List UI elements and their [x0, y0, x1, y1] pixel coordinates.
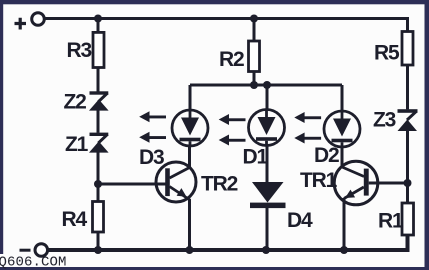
svg-text:R4: R4: [62, 208, 88, 231]
node junction right (Z3/R1/TR1 base): [404, 179, 412, 187]
svg-text:R5: R5: [374, 42, 400, 65]
resistor R3: [93, 32, 104, 67]
svg-text:Z3: Z3: [373, 109, 396, 132]
wire Z1 to R4 (through node): [97, 153, 100, 202]
wire LED rail to D2: [341, 85, 344, 111]
junction top rail / R2: [250, 15, 258, 23]
zener Z3: [398, 109, 418, 131]
junction bottom rail / D4: [262, 246, 270, 254]
wire Z2 to Z1: [97, 110, 100, 132]
wire R5 to Z3: [406, 65, 409, 109]
junction D1/LED rail: [263, 81, 271, 89]
svg-text:R3: R3: [67, 39, 92, 62]
wire TR2 base: [98, 183, 167, 186]
wire R4 to bottom rail: [97, 232, 100, 250]
terminal + circle: [32, 13, 45, 26]
resistor R4: [93, 202, 104, 233]
arrow D3 upper: [139, 111, 166, 122]
arrow D2 upper: [294, 112, 321, 123]
resistor R5: [402, 32, 413, 66]
svg-text:D4: D4: [287, 209, 313, 232]
wire D1 to D4: [266, 146, 269, 183]
border frame right: [425, 0, 429, 270]
svg-text:D1: D1: [243, 146, 269, 169]
arrow D1 upper: [219, 114, 246, 125]
svg-text:Q606.COM: Q606.COM: [0, 254, 67, 270]
transistor TR2: [156, 162, 196, 202]
zener Z2: [89, 91, 109, 110]
border frame left: [0, 0, 3, 270]
terminal - circle: [35, 244, 48, 257]
wire top + rail: [44, 19, 408, 32]
zener Z1: [89, 133, 109, 153]
wire TR2 emitter to bottom rail: [188, 199, 191, 250]
wire R3 to Z2: [97, 68, 100, 92]
border frame top: [0, 0, 429, 4]
junction bottom rail / R4: [94, 246, 102, 254]
wire bottom - rail: [48, 235, 408, 250]
junction top rail / R3: [94, 15, 102, 23]
svg-text:TR1: TR1: [300, 169, 338, 192]
junction bottom rail / TR2 emitter: [186, 246, 194, 254]
wire R2 top stub: [253, 19, 256, 42]
arrow D3 lower: [139, 132, 166, 143]
wire LED rail: [190, 84, 342, 87]
wire TR1 base to right rail: [369, 182, 408, 185]
wire LED rail to D1: [266, 85, 269, 110]
arrow D1 lower: [219, 135, 246, 146]
diode D4: [250, 182, 286, 208]
wire D2 to TR1 collector: [341, 147, 344, 167]
transistor TR1: [334, 161, 378, 205]
svg-text:Z1: Z1: [65, 133, 89, 156]
border frame bottom: [0, 267, 429, 270]
wire R2 bottom to LED rail: [253, 72, 256, 86]
svg-text:R2: R2: [219, 48, 244, 71]
minus sign: [20, 249, 31, 252]
svg-text:D2: D2: [314, 144, 339, 167]
resistor R1: [402, 203, 414, 235]
node junction left (Z1/R4/TR2 base): [94, 180, 102, 188]
svg-text:TR2: TR2: [201, 173, 238, 196]
LED D2: [324, 111, 360, 147]
LED D3: [172, 110, 208, 146]
junction bottom rail / TR1 emitter: [340, 246, 348, 254]
watermark background strip: [0, 254, 4, 267]
svg-text:D3: D3: [139, 146, 164, 169]
svg-text:R1: R1: [378, 210, 404, 233]
LED D1: [249, 110, 285, 146]
wire left rail R3 top stub: [97, 19, 100, 33]
resistor R2: [249, 41, 260, 72]
wire D3 to TR2 collector: [188, 146, 191, 168]
wire Z3 to R1 (through node): [406, 131, 409, 203]
arrow D2 lower: [294, 133, 321, 144]
wire D4 to bottom rail: [266, 208, 269, 250]
junction R2/LED rail: [250, 81, 258, 89]
plus sign: [15, 18, 27, 30]
wire LED rail to D3: [189, 85, 192, 110]
wire TR1 emitter to bottom rail: [343, 198, 346, 250]
svg-text:Z2: Z2: [64, 91, 87, 114]
